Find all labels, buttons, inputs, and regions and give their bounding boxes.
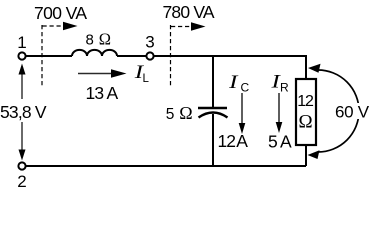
svg-text:8 Ω: 8 Ω	[86, 30, 112, 49]
svg-text:L: L	[143, 73, 150, 85]
svg-text:2: 2	[17, 172, 26, 191]
svg-text:1: 1	[17, 33, 26, 52]
svg-text:700 VA: 700 VA	[34, 3, 87, 23]
svg-text:5 Ω: 5 Ω	[166, 103, 193, 123]
svg-text:53,8 V: 53,8 V	[0, 102, 47, 122]
svg-text:12: 12	[297, 93, 314, 110]
svg-text:13 A: 13 A	[86, 83, 119, 103]
svg-text:60 V: 60 V	[335, 103, 370, 122]
svg-text:R: R	[280, 81, 289, 95]
svg-text:12A: 12A	[218, 131, 249, 151]
svg-text:5A: 5A	[268, 132, 292, 152]
svg-text:780 VA: 780 VA	[163, 2, 215, 22]
svg-text:C: C	[241, 81, 250, 95]
svg-text:Ω: Ω	[298, 112, 312, 133]
svg-text:3: 3	[145, 33, 154, 52]
